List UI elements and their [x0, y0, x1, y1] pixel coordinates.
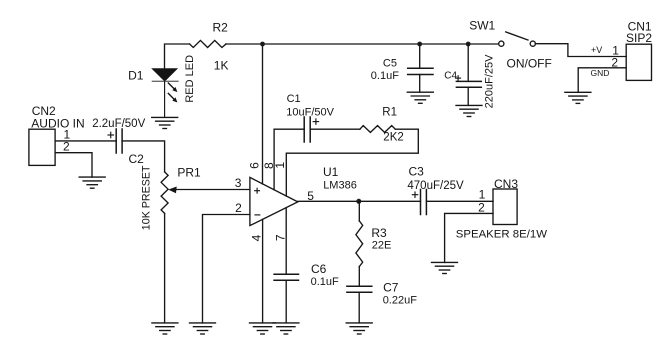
svg-text:0.22uF: 0.22uF: [383, 295, 418, 307]
wire rail to C5: [419, 44, 421, 68]
svg-text:R1: R1: [382, 106, 397, 118]
svg-text:RED LED: RED LED: [184, 55, 196, 103]
ground symbol at D1: [152, 117, 178, 128]
wire C3 to CN3 pin 1: [426, 200, 493, 202]
svg-text:PR1: PR1: [177, 165, 201, 179]
wire output node down to R3: [358, 201, 360, 221]
capacitor C3: [420, 190, 422, 215]
plus sign C4: [456, 77, 461, 79]
svg-text:470uF/25V: 470uF/25V: [407, 180, 464, 192]
wire rail to C4: [467, 44, 469, 81]
wire CN2 pin 1 to C2: [55, 140, 116, 142]
ground symbol at C7: [346, 323, 372, 334]
plus sign C1: [313, 121, 318, 123]
wire C4 to ground: [467, 87, 469, 105]
wire C6 to ground: [285, 280, 287, 323]
wire U1 pin 5 output to node: [298, 200, 359, 202]
svg-text:6: 6: [248, 162, 262, 169]
plus sign inside U1 pin3: [255, 190, 260, 192]
junction dot output node: [356, 199, 361, 204]
svg-text:0.1uF: 0.1uF: [311, 276, 339, 288]
resistor R2: [190, 40, 227, 47]
ground symbol at C4: [456, 105, 482, 116]
svg-text:+V: +V: [591, 45, 602, 55]
svg-text:R3: R3: [371, 226, 387, 240]
svg-text:C1: C1: [287, 93, 301, 105]
wire R2 left lead down to D1 anode: [165, 44, 190, 69]
svg-text:AUDIO IN: AUDIO IN: [31, 116, 84, 130]
svg-text:220uF/25V: 220uF/25V: [483, 54, 495, 108]
capacitor C5: [408, 67, 433, 69]
PR1 wiper arrow: [176, 189, 250, 191]
svg-text:C5: C5: [383, 58, 397, 70]
plus sign C3: [412, 194, 417, 196]
svg-text:C4: C4: [444, 70, 457, 81]
wire C5 to ground: [419, 75, 421, 93]
ground symbol at CN3: [432, 262, 458, 273]
svg-text:22E: 22E: [372, 240, 392, 252]
junction dot rail / C4 branch: [466, 42, 471, 47]
ground symbol at CN1 GND: [565, 92, 591, 103]
svg-text:2K2: 2K2: [383, 131, 403, 143]
potentiometer PR1 element: [161, 172, 168, 214]
wire U1 pin 4 to ground: [262, 219, 264, 323]
wire R3 to C7: [358, 267, 360, 287]
LED D1 body: [152, 69, 177, 81]
svg-text:0.1uF: 0.1uF: [371, 70, 399, 82]
svg-text:10uF/50V: 10uF/50V: [286, 107, 334, 119]
wire U1 pin 6 to supply rail: [262, 44, 264, 184]
svg-text:U1: U1: [323, 165, 339, 179]
plus sign C2: [108, 134, 114, 136]
wire U1 pin 8 up to C1: [274, 129, 304, 190]
svg-text:D1: D1: [128, 68, 144, 82]
svg-text:2: 2: [63, 140, 70, 154]
connector CN3 body: [493, 189, 517, 225]
wire CN3 pin 2 to ground: [445, 213, 493, 262]
LED D1 emission arrows: [168, 83, 173, 88]
ground symbol at C6: [273, 323, 299, 334]
svg-text:10K PRESET: 10K PRESET: [141, 165, 153, 230]
svg-text:2: 2: [235, 201, 242, 215]
svg-text:4: 4: [249, 234, 263, 241]
svg-text:C3: C3: [409, 164, 425, 178]
wire C1 to R1: [310, 128, 360, 130]
switch SW1 contacts and lever: [499, 41, 504, 46]
svg-text:R2: R2: [213, 20, 229, 34]
svg-text:2: 2: [611, 56, 618, 70]
ground symbol at C5: [407, 92, 433, 103]
svg-text:5: 5: [307, 189, 314, 203]
wire output node to C3: [359, 200, 421, 202]
ground symbol at U1 pin 2: [190, 323, 216, 334]
capacitor C4: [456, 80, 481, 82]
ground symbol at U1 pin 4: [250, 323, 276, 334]
connector CN2 body: [29, 129, 55, 165]
svg-text:7: 7: [273, 234, 287, 241]
wire U1 pin 2 to ground: [203, 215, 250, 323]
svg-text:ON/OFF: ON/OFF: [507, 57, 552, 71]
ground symbol at PR1: [152, 323, 178, 334]
svg-text:SIP2: SIP2: [626, 31, 652, 45]
svg-text:C7: C7: [383, 281, 399, 295]
svg-text:LM386: LM386: [323, 180, 357, 192]
junction dot rail / C5 branch: [417, 42, 422, 47]
junction dot rail / U1 pin 6 branch: [260, 42, 265, 47]
resistor R1: [360, 126, 395, 133]
capacitor C1: [303, 117, 305, 142]
svg-text:2: 2: [478, 200, 485, 214]
svg-text:GND: GND: [591, 68, 610, 78]
wire R1 around to U1 pin 1: [286, 129, 418, 196]
svg-text:2.2uF/50V: 2.2uF/50V: [92, 118, 145, 130]
capacitor C6: [274, 273, 298, 275]
svg-text:1K: 1K: [214, 59, 229, 73]
wire CN2 pin 2 to ground: [55, 153, 92, 177]
svg-text:CN3: CN3: [494, 177, 518, 191]
wire SW1 to CN1 pin 1: [535, 44, 626, 57]
svg-text:C6: C6: [311, 262, 327, 276]
wire D1 cathode to ground: [164, 81, 166, 117]
capacitor C7: [347, 285, 372, 287]
wire top supply rail R2 to SW1: [226, 43, 499, 45]
connector CN1 body: [626, 44, 651, 80]
svg-text:C2: C2: [129, 152, 145, 166]
svg-text:3: 3: [235, 176, 242, 190]
resistor R3: [356, 221, 363, 267]
wire CN1 pin 2 to ground: [578, 68, 626, 93]
svg-text:SPEAKER 8E/1W: SPEAKER 8E/1W: [456, 229, 547, 241]
wire C7 to ground: [358, 292, 360, 323]
svg-text:SW1: SW1: [469, 19, 495, 33]
capacitor C2: [115, 129, 117, 153]
op-amp U1 triangle: [250, 177, 298, 225]
ground symbol at CN2 pin 2: [79, 177, 105, 188]
svg-text:1: 1: [273, 162, 287, 169]
wire U1 pin 7 down to C6: [285, 208, 287, 275]
minus sign inside U1 pin2: [255, 214, 260, 216]
wire PR1 bottom to ground: [164, 213, 166, 323]
wire C2 to PR1 top: [122, 141, 165, 172]
